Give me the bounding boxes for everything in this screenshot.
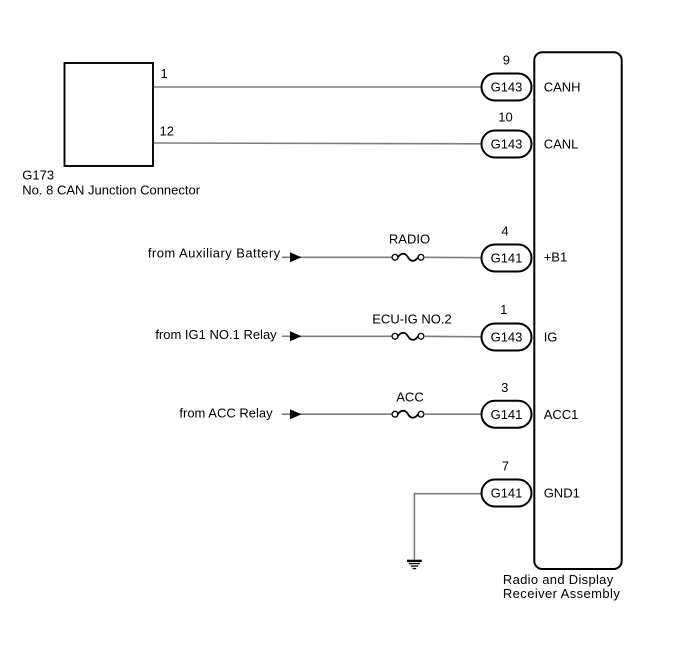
svg-text:3: 3 [501,380,508,395]
svg-text:IG: IG [544,330,558,345]
pin 3 number [501,380,508,395]
svg-text:G143: G143 [491,330,523,345]
svg-text:Receiver Assembly: Receiver Assembly [503,586,620,601]
svg-text:G173: G173 [22,167,54,182]
svg-text:G143: G143 [491,80,523,95]
svg-text:G141: G141 [491,486,523,501]
pin name +B1 [544,250,568,265]
svg-text:G141: G141 [491,407,523,422]
pin 1 number [500,302,507,317]
pin name CANH [544,80,581,95]
fuse RADIO [392,254,424,261]
connector G173 box [65,63,154,166]
svg-text:from IG1 NO.1 Relay: from IG1 NO.1 Relay [155,327,277,342]
svg-text:G143: G143 [491,137,523,152]
svg-text:12: 12 [160,124,174,139]
fuse RADIO value label [389,232,430,247]
svg-text:4: 4 [501,224,508,239]
pin name CANL [544,137,579,152]
fuse ACC value label [396,390,423,405]
fuse ECU-IG NO.2 [392,333,424,340]
arrow from ACC Relay [290,409,302,419]
label Receiver Assembly [503,586,620,601]
wire pin1 to G143 (CANH) [154,86,482,88]
pin name ACC1 [544,407,579,422]
connector oval G143 pin 9 [482,74,532,101]
svg-text:1: 1 [500,302,507,317]
wire fuse RADIO to G141 [424,256,482,258]
svg-text:CANH: CANH [544,80,581,95]
fuse ECU-IG NO.2 value label [372,312,451,327]
svg-text:ECU-IG NO.2: ECU-IG NO.2 [372,312,451,327]
label Radio and Display [503,572,614,587]
svg-text:Radio and Display: Radio and Display [503,572,614,587]
svg-text:from ACC Relay: from ACC Relay [179,406,273,421]
node from ACC Relay label [179,406,273,421]
svg-text:CANL: CANL [544,137,579,152]
arrow from Auxiliary Battery [290,252,302,262]
pin name GND1 [544,486,580,501]
pin 9 number [503,53,510,68]
wire fuse ACC to G141 [424,413,482,415]
pin 10 number [498,110,512,125]
svg-text:GND1: GND1 [544,486,580,501]
wire fuse ECU-IG NO.2 to G143 [424,335,482,338]
svg-text:7: 7 [502,459,509,474]
ECU Radio and Display Receiver Assembly body [534,52,621,569]
wire pin12 to G143 (CANL) [154,142,482,145]
label G173 [22,167,54,182]
wire from IG1 NO.1 Relay to fuse ECU-IG NO.2 [282,335,392,337]
svg-text:ACC1: ACC1 [544,407,579,422]
svg-text:No. 8 CAN Junction Connector: No. 8 CAN Junction Connector [22,183,200,198]
connector oval G143 pin 1 [482,324,532,351]
connector oval G141 pin 7 [482,480,532,507]
wire GND1 to ground [414,494,481,560]
pin 7 number [502,459,509,474]
pin 12 label [160,124,174,139]
pin 1 label [161,66,168,81]
connector oval G143 pin 10 [482,131,532,158]
connector oval G141 pin 3 [482,401,532,428]
wire from Auxiliary Battery to fuse RADIO [282,256,392,258]
node from IG1 NO.1 Relay label [155,327,277,342]
pin 4 number [501,224,508,239]
svg-text:10: 10 [498,110,512,125]
label No. 8 CAN Junction Connector [22,183,200,198]
svg-text:1: 1 [161,66,168,81]
svg-text:G141: G141 [491,251,523,266]
svg-text:ACC: ACC [396,390,423,405]
pin name IG [544,330,558,345]
node from Auxiliary Battery label [148,246,281,261]
ground [407,561,422,569]
svg-text:+B1: +B1 [544,250,568,265]
svg-text:from Auxiliary Battery: from Auxiliary Battery [148,246,281,261]
connector oval G141 pin 4 [482,245,532,272]
wire from ACC Relay to fuse ACC [282,413,392,415]
svg-text:9: 9 [503,53,510,68]
fuse ACC [392,411,424,418]
arrow from IG1 NO.1 Relay [290,331,302,341]
svg-text:RADIO: RADIO [389,232,430,247]
